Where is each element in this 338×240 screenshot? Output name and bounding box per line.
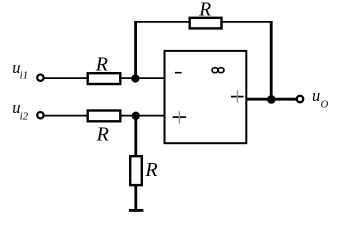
node C junction dot (output) <box>267 95 276 104</box>
svg-text:R: R <box>198 0 211 21</box>
resistor R2 <box>88 111 121 122</box>
svg-text:R: R <box>144 159 157 181</box>
svg-text:i1: i1 <box>20 69 29 81</box>
svg-text:R: R <box>95 54 108 76</box>
label u_i1 <box>12 58 28 81</box>
wire feedback left vertical <box>134 21 137 78</box>
op-amp gain infinity symbol <box>212 68 224 73</box>
resistor R1 <box>88 73 121 84</box>
svg-text:i2: i2 <box>20 111 29 123</box>
terminal u_i2 <box>37 112 43 118</box>
ground <box>129 209 144 212</box>
svg-text:u: u <box>312 86 320 105</box>
resistor R3 (vertical) <box>130 156 142 185</box>
wire feedback top left <box>134 21 189 23</box>
wire R1 to inverting input <box>121 77 165 79</box>
wire op-amp output <box>246 98 296 101</box>
node B junction dot (non-inverting input) <box>132 112 140 120</box>
wire feedback right vertical <box>270 21 273 99</box>
op-amp output plus sign <box>231 90 244 102</box>
wire node B to R3 <box>134 116 137 156</box>
op-amp non-inverting input plus sign <box>173 111 187 123</box>
svg-text:R: R <box>96 124 109 146</box>
svg-text:O: O <box>321 100 329 111</box>
node A junction dot (inverting input) <box>131 74 139 82</box>
op-amp U1 body <box>165 51 247 143</box>
wire u_i1 to R1 <box>44 77 87 79</box>
wire feedback top right <box>222 21 273 23</box>
terminal u_O <box>297 96 303 102</box>
wire u_i2 to R2 <box>44 115 87 117</box>
label u_O <box>312 86 329 111</box>
wire R2 to non-inverting input <box>121 115 165 117</box>
op-amp inverting input minus sign <box>175 72 182 74</box>
terminal u_i1 <box>37 75 43 81</box>
label u_i2 <box>12 98 28 123</box>
resistor R feedback <box>190 18 222 29</box>
wire R3 to ground <box>134 184 137 210</box>
